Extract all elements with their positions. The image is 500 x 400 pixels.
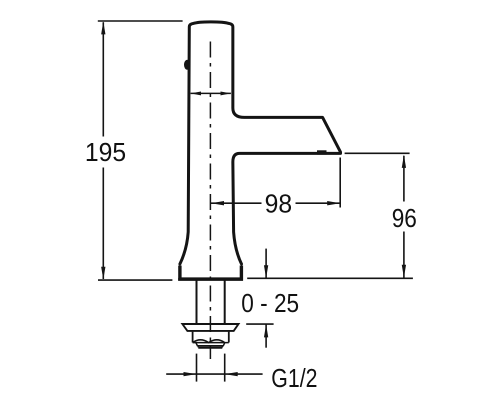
aerator tick on spout underside xyxy=(317,150,327,154)
shank right wall xyxy=(224,280,226,323)
svg-text:195: 195 xyxy=(85,138,126,167)
temperature button bump on head left wall xyxy=(184,60,190,70)
head width arrow line xyxy=(191,92,231,94)
dimension 0-25: upper dimension line with down arrow xyxy=(265,249,267,278)
dimension 98: dimension line xyxy=(211,202,340,204)
dimension 195: top extension line xyxy=(98,20,183,22)
dimension G1/2: arrowheads xyxy=(184,372,197,376)
base bottom line xyxy=(178,278,243,281)
svg-text:98: 98 xyxy=(265,190,292,219)
base skirt (thick U) xyxy=(180,266,242,280)
dimension G1/2: left extension line xyxy=(196,354,198,382)
dimension 96: dimension line xyxy=(403,156,405,278)
dimension 195: bottom extension line xyxy=(98,279,172,281)
dimension G1/2: right extension line xyxy=(224,354,226,382)
svg-text:0 - 25: 0 - 25 xyxy=(241,290,299,319)
dimension 0-25: lower dimension line with up arrow xyxy=(265,324,267,347)
svg-text:G1/2: G1/2 xyxy=(271,364,317,394)
dimension 96: top extension line xyxy=(345,152,410,154)
dimension 195: arrowheads xyxy=(101,21,105,34)
dimension 98: label xyxy=(262,193,296,215)
shank left wall xyxy=(196,280,198,323)
dimension 96: arrowheads xyxy=(402,155,406,168)
locknut xyxy=(193,332,229,348)
svg-text:96: 96 xyxy=(392,205,417,234)
faucet body outline (head, column, spout) xyxy=(180,22,341,264)
dimension 96: bottom extension line (shared with 0-25) xyxy=(247,277,413,279)
dimension 0-25: lower reference line xyxy=(246,323,273,325)
dimension 195: dimension line xyxy=(102,22,104,279)
dimension 98: extension line at spout tip xyxy=(339,158,341,208)
dimension 98: arrowheads xyxy=(211,201,224,205)
washer flange xyxy=(182,324,238,331)
dimension G1/2: dimension line xyxy=(166,373,262,375)
vertical centerline (dash-dot) xyxy=(209,42,211,360)
